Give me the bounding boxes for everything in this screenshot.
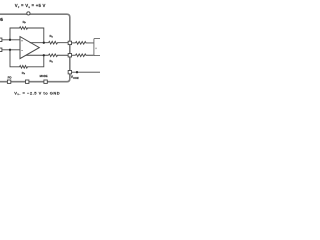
pin square OUT- (68, 54, 71, 57)
series resistor lower (76, 54, 94, 57)
op-amp U1 fully differential (20, 37, 39, 59)
wire VOCM (72, 71, 100, 73)
amplifier IC boundary box (0, 14, 70, 82)
wire input upper (2, 39, 20, 41)
resistor RO upper (49, 41, 69, 44)
resistor RF upper feedback loop (10, 27, 44, 43)
wire to series resistor lower (72, 54, 76, 56)
series resistor upper (76, 42, 94, 45)
node dot lower input (9, 49, 11, 51)
resistor RF lower feedback loop (10, 50, 44, 68)
node dot upper input (9, 39, 11, 41)
svg-text:VP = VS = +5 V: VP = VS = +5 V (15, 3, 46, 9)
svg-text:RF: RF (22, 71, 26, 76)
node dot lower output (43, 54, 45, 56)
resistor RO lower (49, 54, 69, 57)
pin square MODE (44, 80, 47, 83)
svg-text:05: 05 (0, 17, 4, 22)
input pin square + (clipped) (0, 38, 2, 42)
wire to series resistor upper (72, 42, 76, 44)
wire output lower (26, 54, 49, 56)
ADC box (94, 38, 102, 55)
wire input lower (2, 49, 20, 51)
pin square FB (26, 80, 29, 83)
svg-text:VS− = −2.5 V to GND: VS− = −2.5 V to GND (14, 90, 60, 96)
svg-text:PD: PD (8, 75, 12, 79)
input pin square - (clipped) (0, 48, 2, 52)
pin square VOCM (68, 71, 71, 74)
svg-text:VOCM: VOCM (71, 75, 79, 80)
supply terminal circle (27, 12, 30, 15)
node dot upper output (43, 42, 45, 44)
svg-text:RF: RF (23, 20, 27, 25)
wire output upper (30, 42, 49, 44)
svg-text:MODE: MODE (40, 74, 48, 78)
pin square PD (7, 80, 10, 83)
pin square OUT+ (68, 41, 71, 44)
node dot VOCM (76, 71, 78, 73)
svg-text:RO: RO (50, 59, 54, 64)
svg-text:RO: RO (50, 34, 54, 39)
